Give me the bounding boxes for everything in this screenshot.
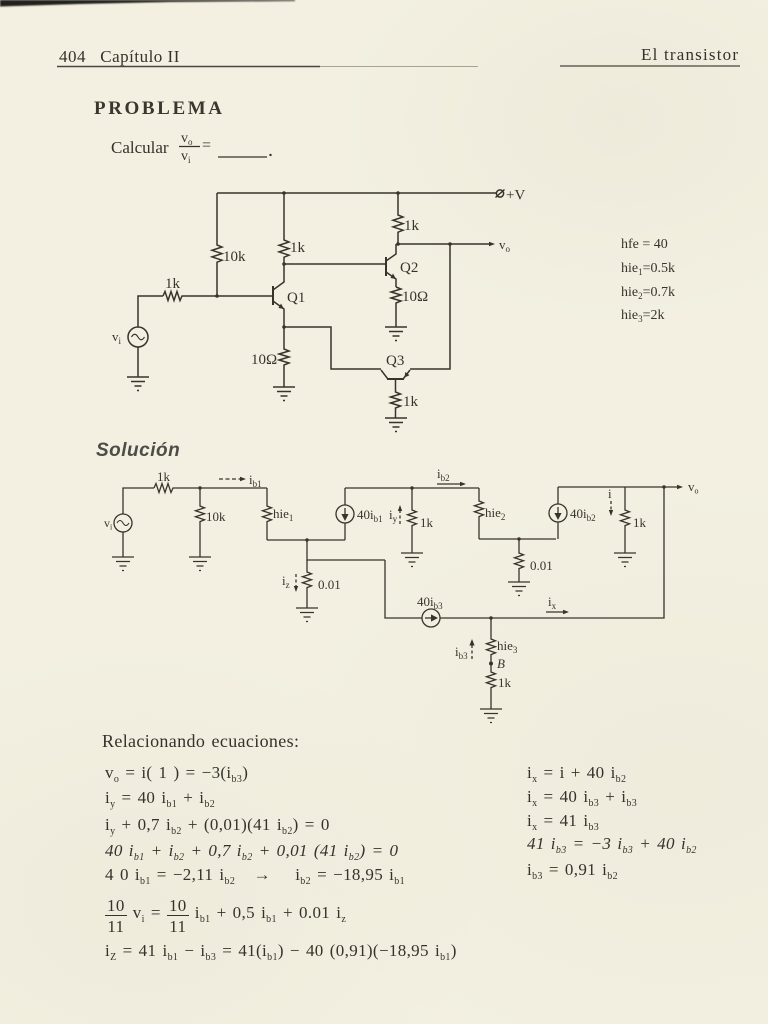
svg-text:iy: iy bbox=[389, 507, 398, 524]
resistor R6 10ohm (Q2 emitter) bbox=[391, 287, 428, 327]
node base-R1 junction bbox=[215, 294, 219, 298]
ground (R6) bbox=[385, 327, 407, 341]
node rail-R4 junction bbox=[396, 191, 400, 195]
node input/10k junction bbox=[198, 486, 201, 489]
PROBLEMA heading bbox=[94, 98, 225, 120]
wire hie1 bottom bus bbox=[267, 539, 345, 541]
resistor R4 1k (Q2 collector load) bbox=[393, 193, 420, 244]
source vi (small signal) bbox=[104, 514, 132, 532]
resistor 0.01 (stage2 emitter) bbox=[515, 539, 553, 582]
node B marker bbox=[489, 656, 505, 671]
resistor 1k (stage3 load) bbox=[621, 487, 647, 553]
svg-text:ix: ix bbox=[548, 594, 557, 611]
ground (stage hie3) bbox=[480, 709, 502, 723]
transistor Q2 bbox=[386, 244, 418, 287]
note hfe values bbox=[621, 237, 675, 324]
svg-text:iz: iz bbox=[282, 573, 290, 590]
svg-text:1k: 1k bbox=[498, 675, 512, 690]
ground (10k) bbox=[189, 557, 211, 571]
current arrow ib1 bbox=[219, 472, 262, 489]
resistor hie1 bbox=[263, 488, 294, 540]
wire vo branch down and bottom bus bbox=[440, 487, 664, 618]
wire vo branch down to Q3 collector bbox=[410, 244, 450, 369]
ground (0.01 stage2) bbox=[508, 582, 530, 596]
svg-text:hie3: hie3 bbox=[497, 638, 518, 655]
resistor 1k (hie3 emitter) bbox=[487, 663, 512, 709]
svg-text:40ib2: 40ib2 bbox=[570, 506, 596, 523]
current arrow ib2 bbox=[437, 466, 466, 486]
resistor R2 1k (Q1 collector load) bbox=[279, 193, 306, 264]
svg-text:ib2: ib2 bbox=[437, 466, 450, 483]
wire top supply rail bbox=[217, 192, 497, 194]
current arrow iz bbox=[282, 573, 298, 592]
wire drop to iz node bbox=[307, 540, 385, 560]
svg-text:1k: 1k bbox=[420, 515, 434, 530]
svg-text:10k: 10k bbox=[206, 509, 226, 524]
current arrow iy bbox=[389, 505, 402, 524]
ground (R7) bbox=[385, 418, 407, 432]
node hie2 bus junction bbox=[517, 537, 520, 540]
svg-text:vi: vi bbox=[104, 516, 113, 532]
transistor Q3 bbox=[381, 353, 410, 379]
node Q1 emitter junction bbox=[282, 325, 286, 329]
wire vo line bbox=[398, 237, 511, 254]
current source 40ib3 bbox=[417, 594, 443, 627]
current source 40ib1 bbox=[336, 488, 383, 540]
wire Q1 collector to Q2 base bbox=[284, 263, 386, 265]
svg-text:40ib1: 40ib1 bbox=[357, 507, 383, 524]
ground (vi) bbox=[127, 347, 149, 391]
resistor 1k series input bbox=[154, 469, 267, 493]
node Q1 collector junction bbox=[282, 262, 286, 266]
wire base node to Q1 bbox=[217, 295, 272, 297]
resistor R3 1k (input) bbox=[163, 276, 217, 301]
svg-text:0.01: 0.01 bbox=[318, 577, 341, 592]
svg-text:ib3: ib3 bbox=[455, 644, 468, 661]
wire vi to input resistor bbox=[138, 296, 163, 327]
current arrow ib3 bbox=[455, 639, 475, 661]
resistor hie2 bbox=[475, 488, 506, 539]
node bus drop junction bbox=[305, 538, 308, 541]
power terminal +V bbox=[496, 188, 526, 204]
wire 40ib3 left to stage1 drop bbox=[385, 560, 422, 618]
resistor R5 10ohm (Q1 emitter) bbox=[251, 327, 289, 387]
node stage2 rail 1k junction bbox=[410, 486, 413, 489]
svg-text:0.01: 0.01 bbox=[530, 558, 553, 573]
current source 40ib2 bbox=[549, 487, 596, 539]
ground (0.01 stage1) bbox=[296, 608, 318, 622]
svg-text:vo: vo bbox=[688, 479, 699, 496]
ground (R5) bbox=[273, 387, 295, 401]
resistor R1 10k bbox=[212, 193, 246, 295]
resistor 1k (stage2 load) bbox=[408, 488, 434, 553]
svg-text:i: i bbox=[608, 486, 612, 501]
svg-text:1k: 1k bbox=[157, 469, 171, 484]
svg-text:1k: 1k bbox=[633, 515, 647, 530]
svg-text:ib1: ib1 bbox=[249, 472, 262, 489]
node vo branch junction bbox=[448, 242, 452, 246]
wire vi up to rail bbox=[123, 488, 154, 514]
ground (vi small signal) bbox=[112, 532, 134, 571]
wire Q1 emitter to Q3 base bbox=[284, 327, 381, 369]
wire stage3 rail to vo bbox=[558, 479, 699, 496]
ground (stage3 1k) bbox=[614, 553, 636, 567]
svg-text:hie1: hie1 bbox=[273, 506, 293, 523]
transistor Q1 bbox=[273, 264, 305, 327]
node Q2 collector / vo junction bbox=[396, 242, 400, 246]
Solucion heading bbox=[96, 440, 180, 462]
source vi bbox=[112, 327, 148, 347]
node rail-R2 junction bbox=[282, 191, 286, 195]
resistor 10k shunt bbox=[196, 488, 227, 557]
resistor hie3 bbox=[487, 618, 518, 663]
header left: 404 Capitulo II bbox=[59, 47, 180, 67]
svg-text:hie2: hie2 bbox=[485, 505, 505, 522]
wire stage2 rail bbox=[345, 487, 479, 489]
node hie3 junction bbox=[489, 616, 492, 619]
resistor 0.01 (stage1 emitter) bbox=[303, 560, 341, 608]
ground (stage2 1k) bbox=[401, 553, 423, 567]
header right: El transistor bbox=[641, 45, 739, 65]
svg-text:40ib3: 40ib3 bbox=[417, 594, 443, 611]
current arrow ix bbox=[546, 594, 569, 614]
current arrow i bbox=[608, 486, 613, 516]
svg-text:B: B bbox=[497, 656, 505, 671]
wire hie2 bottom bus bbox=[479, 538, 556, 540]
resistor R7 1k (Q3 emitter) bbox=[391, 379, 419, 418]
node stage3 rail branch junction bbox=[662, 485, 665, 488]
